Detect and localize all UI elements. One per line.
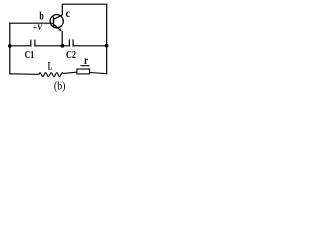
inductor L coil <box>39 73 63 77</box>
node: junction dot left rail / middle wire <box>8 44 12 48</box>
svg-text:+V: +V <box>33 23 43 32</box>
wire: left vertical rail <box>9 23 11 75</box>
capacitor C2 left plate <box>68 39 70 46</box>
node: junction dot right rail / middle wire <box>105 44 109 48</box>
transistor Q1 circle <box>50 15 63 28</box>
wire: middle horizontal between emitter node and C2 <box>62 45 69 47</box>
wire: right vertical rail <box>106 4 108 75</box>
transistor Q1 base bar <box>53 17 55 27</box>
wire: middle horizontal left segment <box>9 45 31 47</box>
transistor Q1 emitter arrowhead <box>59 28 62 31</box>
transistor Q1 collector diagonal <box>54 15 62 19</box>
svg-text:L: L <box>48 60 53 74</box>
svg-text:(b): (b) <box>54 80 66 93</box>
wire: emitter vertical <box>61 31 63 46</box>
stray underline below r label <box>81 65 90 67</box>
capacitor C1 left plate <box>30 40 32 47</box>
svg-text:r: r <box>84 54 88 67</box>
wire: middle horizontal right segment <box>73 45 106 47</box>
wire: bottom left segment <box>9 73 39 76</box>
wire: top-left horizontal (base wire) <box>9 22 53 24</box>
wire: middle horizontal between C1 and emitter node <box>35 45 62 47</box>
wire: top loop horizontal <box>62 3 107 5</box>
resistor r box <box>77 69 90 74</box>
svg-text:C1: C1 <box>25 49 35 60</box>
svg-text:C2: C2 <box>66 49 76 60</box>
wire: bottom between resistor and right rail <box>90 73 108 74</box>
capacitor C2 right plate <box>72 39 74 46</box>
wire: bottom between inductor and resistor <box>63 72 77 74</box>
capacitor C1 right plate <box>34 40 36 47</box>
transistor Q1 emitter diagonal <box>54 25 60 30</box>
node: junction dot emitter / middle wire <box>61 44 65 48</box>
wire: collector vertical <box>61 4 63 15</box>
svg-text:b: b <box>39 10 44 23</box>
svg-text:c: c <box>66 8 71 21</box>
